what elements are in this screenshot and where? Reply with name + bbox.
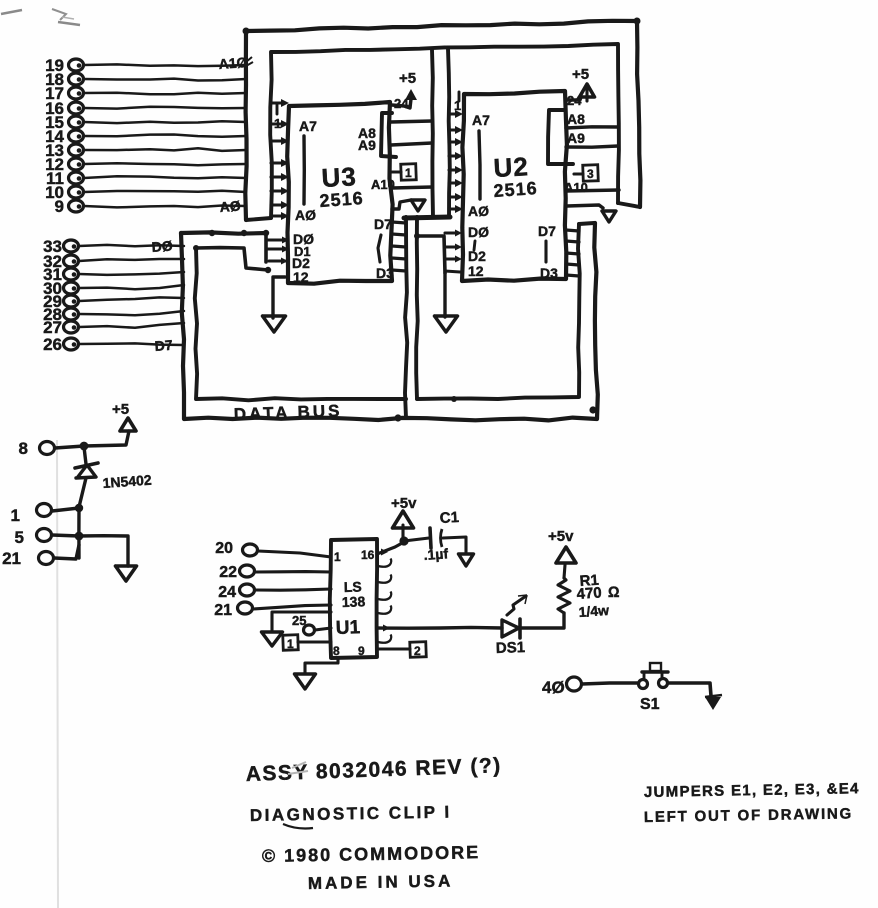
net label D7 xyxy=(154,337,173,354)
svg-text:A9: A9 xyxy=(358,137,376,153)
svg-text:DØ: DØ xyxy=(151,238,173,255)
svg-text:D7: D7 xyxy=(154,337,173,354)
U3 designator xyxy=(321,161,358,193)
U2 pin label D3 xyxy=(540,265,558,281)
svg-text:LEFT OUT OF DRAWING: LEFT OUT OF DRAWING xyxy=(644,805,853,826)
data bus U2 feeder xyxy=(414,233,445,273)
data bus right cap xyxy=(579,223,594,224)
+5V power arrow (R1) xyxy=(548,528,576,578)
wire U3 D0 xyxy=(266,237,289,244)
svg-text:5: 5 xyxy=(15,528,24,547)
wire U3 data stub D6 xyxy=(392,234,406,235)
note jumpers line 1 xyxy=(644,780,860,801)
note jumpers line 2 xyxy=(644,805,853,826)
svg-text:1: 1 xyxy=(405,166,412,180)
U2 pin label A9 xyxy=(567,130,585,146)
DATA BUS net label xyxy=(233,401,342,424)
wire U3 address stub xyxy=(271,159,289,167)
address bus left end cap xyxy=(246,218,271,220)
wire U2 address stub xyxy=(449,138,463,146)
svg-text:1/4w: 1/4w xyxy=(578,602,610,620)
U2 A7-A0 range line xyxy=(479,131,480,199)
ground (S1) xyxy=(705,695,722,710)
svg-text:DS1: DS1 xyxy=(496,639,526,657)
svg-text:21: 21 xyxy=(214,602,232,619)
connector pin 13 (address) xyxy=(45,141,246,160)
connector pin 29 (data) xyxy=(43,292,184,311)
svg-text:DATA BUS: DATA BUS xyxy=(233,401,342,424)
U3 pin label D0 xyxy=(293,231,314,247)
wire U2 pin 12 xyxy=(445,271,460,272)
wire U3 data stub D7 xyxy=(392,222,406,223)
svg-text:AØ: AØ xyxy=(295,207,316,223)
wire U3 A10 xyxy=(392,187,432,188)
U1 right stub xyxy=(378,575,391,583)
svg-text:3: 3 xyxy=(587,167,594,181)
connector pin 12 (address) xyxy=(45,155,246,174)
svg-text:+5: +5 xyxy=(572,66,589,83)
data bus middle drop xyxy=(405,217,418,418)
U2 pin label D7 xyxy=(538,223,556,239)
data bus U3 feeder xyxy=(264,233,268,262)
title copyright xyxy=(262,842,481,866)
svg-text:A7: A7 xyxy=(299,118,317,134)
U2 chip-select arrow xyxy=(567,205,616,222)
svg-text:AØ: AØ xyxy=(219,198,241,215)
svg-text:A7: A7 xyxy=(472,112,490,128)
svg-text:.1µf: .1µf xyxy=(423,545,449,563)
svg-text:Ω: Ω xyxy=(608,584,620,601)
U2 designator xyxy=(493,151,530,183)
connector pin 9 (address) xyxy=(55,197,246,216)
wire U1 pin16 to +5 xyxy=(377,536,409,555)
pin 1 label U3 xyxy=(274,104,281,131)
svg-text:+5v: +5v xyxy=(548,528,574,545)
svg-text:D3: D3 xyxy=(540,265,558,281)
connector pin 31 (data) xyxy=(43,265,184,284)
wire U3 D2 xyxy=(269,258,288,265)
svg-text:+5: +5 xyxy=(112,401,129,418)
decoder U1 body xyxy=(330,539,377,658)
U2 pin 12 ground xyxy=(435,273,458,332)
wire U2 D0 xyxy=(445,230,462,237)
svg-text:2516: 2516 xyxy=(319,188,364,211)
wire DS1 to R1 xyxy=(521,613,564,628)
U3 pin label 12 xyxy=(293,269,309,285)
svg-text:8: 8 xyxy=(333,644,340,658)
U1 designator xyxy=(335,617,360,639)
EPROM U3 body xyxy=(287,102,392,284)
connector pin 19 (address) xyxy=(45,56,246,75)
U3 pin label 24 xyxy=(394,96,409,111)
U2 D0-D2 tick xyxy=(474,241,475,250)
capacitor C1 xyxy=(404,509,459,563)
svg-text:A8: A8 xyxy=(567,111,585,127)
title DIAGNOSTIC CLIP I xyxy=(250,802,452,828)
wire U2 D2 xyxy=(445,256,462,263)
wire U2 address stub xyxy=(449,110,463,118)
svg-text:AØ: AØ xyxy=(468,203,489,219)
U1 value LS xyxy=(344,578,362,595)
connector pin 15 (address) xyxy=(45,113,246,132)
svg-text:1N5402: 1N5402 xyxy=(102,472,152,491)
U3 pin label D1 xyxy=(294,244,311,259)
svg-text:ASSY 8032046 REV (?): ASSY 8032046 REV (?) xyxy=(245,754,502,786)
U3 pin label A10 xyxy=(371,177,395,192)
connector pin 33 (data) xyxy=(43,237,184,256)
address bus outer wall xyxy=(243,18,641,221)
U2 +5 power arrow xyxy=(566,66,595,101)
wire U3 address stub xyxy=(271,187,289,195)
svg-text:470: 470 xyxy=(576,584,602,603)
wire rail pin1-5-21 xyxy=(77,508,80,558)
connector pin 17 (address) xyxy=(45,84,246,103)
address bus inner wall xyxy=(270,44,619,218)
data bus outer wall xyxy=(181,223,598,420)
connector pin 40 xyxy=(542,677,637,697)
wire U2 address stub xyxy=(449,126,463,134)
U3 chip-select arrow xyxy=(392,200,425,211)
svg-text:8: 8 xyxy=(19,439,28,458)
+5V power arrow (pin 8 rail) xyxy=(112,401,136,431)
wire U2 address stub xyxy=(449,205,463,213)
svg-text:A10: A10 xyxy=(371,177,395,192)
svg-text:U1: U1 xyxy=(335,617,360,639)
U3 pin 12 ground xyxy=(263,277,286,332)
connector pin 1 xyxy=(11,504,84,526)
svg-text:1: 1 xyxy=(11,506,20,525)
connector pin 25 xyxy=(292,613,331,635)
svg-text:© 1980 COMMODORE: © 1980 COMMODORE xyxy=(262,842,481,866)
U3 A8/A9 bracket xyxy=(381,113,396,157)
svg-text:+5: +5 xyxy=(399,70,416,87)
ground (pin 5 rail) xyxy=(79,536,137,581)
connector pin 10 (address) xyxy=(45,183,246,202)
connector pin 27 (data) xyxy=(43,318,184,337)
U3 D7-D3 range line xyxy=(378,235,381,262)
svg-text:21: 21 xyxy=(2,549,21,568)
wire U3 address stub xyxy=(271,120,289,128)
wire U3 address stub xyxy=(271,173,289,181)
svg-text:D3: D3 xyxy=(376,265,394,281)
connector pin 18 (address) xyxy=(45,70,246,89)
wire U3 address stub xyxy=(271,201,289,209)
wire U2 data stub D3 xyxy=(566,275,579,276)
svg-text:D2: D2 xyxy=(468,248,486,264)
wire U3 address stub xyxy=(271,137,289,145)
svg-text:2: 2 xyxy=(414,644,421,658)
connector pin 32 (data) xyxy=(43,252,184,271)
U1 pin 8 label xyxy=(333,644,340,658)
wire U2 address stub xyxy=(449,166,463,174)
svg-text:+5v: +5v xyxy=(391,495,417,512)
wire U2 data stub D7 xyxy=(566,230,579,231)
U2 pin label 24 xyxy=(567,93,582,108)
U1 value 138 xyxy=(342,593,366,610)
wire U3 data stub D3 xyxy=(392,270,406,271)
ground (U1 bottom) xyxy=(295,658,339,689)
connector pin 26 (data) xyxy=(43,335,184,354)
svg-text:S1: S1 xyxy=(640,696,660,713)
wire U3 address stub xyxy=(271,212,289,220)
svg-text:2516: 2516 xyxy=(493,178,538,201)
U1 right stub xyxy=(378,592,391,600)
U3 value 2516 xyxy=(319,188,364,211)
wire U3 address stub (pin 1) xyxy=(271,99,289,107)
wire U2 address stub xyxy=(449,179,463,187)
jumper E1 box (U1) xyxy=(283,635,331,651)
title MADE IN USA xyxy=(308,871,454,893)
data bus top bar xyxy=(181,230,269,236)
svg-text:1: 1 xyxy=(334,550,341,564)
connector pin 16 (address) xyxy=(45,99,246,118)
svg-text:D7: D7 xyxy=(374,216,392,232)
ground (C1) xyxy=(443,537,474,566)
U3 pin label D3 xyxy=(376,265,394,281)
wire U3 A8 xyxy=(391,121,432,122)
jumper E3 box (U2) xyxy=(574,165,598,182)
U2 pin label D0 xyxy=(468,224,489,240)
title ASSY xyxy=(245,754,502,786)
U2 pin label D2 xyxy=(468,248,486,264)
U2 value 2516 xyxy=(493,178,538,201)
svg-text:138: 138 xyxy=(342,593,366,610)
svg-text:22: 22 xyxy=(219,564,237,581)
pin 1 label U2 xyxy=(454,92,461,113)
wire U2 data stub D5 xyxy=(566,253,579,254)
U2 pin label A0 xyxy=(468,203,489,219)
wire U3 A9 xyxy=(391,143,432,145)
svg-text:24: 24 xyxy=(218,584,236,601)
U3 pin label D2 xyxy=(292,255,310,271)
U3 pin label D7 xyxy=(374,216,392,232)
U2 pin label A7 xyxy=(472,112,490,128)
U2 pin label A8 xyxy=(567,111,585,127)
net label D0 xyxy=(151,238,173,255)
switch S1 xyxy=(639,663,669,713)
svg-text:A9: A9 xyxy=(567,130,585,146)
connector pin 30 (data) xyxy=(43,279,184,298)
U2 pin label 12 xyxy=(468,263,484,279)
wire S1 to ground xyxy=(668,683,711,696)
U3 pin label A7 xyxy=(299,118,317,134)
U1 pin 9 label xyxy=(358,644,365,658)
U1 pin 16 label xyxy=(361,548,375,562)
wire U2 D1 xyxy=(445,244,462,251)
svg-text:A1Ø: A1Ø xyxy=(218,54,248,72)
connector pin 14 (address) xyxy=(45,127,246,146)
svg-text:9: 9 xyxy=(358,644,365,658)
U2 D7-D3 range line xyxy=(544,241,547,262)
stray pencil marks xyxy=(1,9,80,908)
svg-text:20: 20 xyxy=(215,540,233,557)
connector pin 21 xyxy=(2,545,79,568)
U2 pin label A10 xyxy=(564,180,588,195)
U1 right stub xyxy=(378,559,391,567)
EPROM U2 body xyxy=(462,91,567,281)
address bus right end cap xyxy=(618,203,640,207)
wire U2 data stub D4 xyxy=(566,264,579,265)
wire U3 data stub D4 xyxy=(392,258,406,259)
connector pin 20 xyxy=(215,540,331,557)
resistor R1 xyxy=(558,572,620,620)
svg-text:1: 1 xyxy=(274,116,281,131)
LED DS1 xyxy=(496,595,527,657)
address bus middle drop (to U2) xyxy=(404,49,450,218)
svg-text:1: 1 xyxy=(287,637,294,651)
data bus inner wall (right loop) xyxy=(417,224,580,399)
wire U2 address stub xyxy=(449,152,463,160)
svg-text:D7: D7 xyxy=(538,223,556,239)
svg-text:4Ø: 4Ø xyxy=(542,678,565,697)
data bus junction dots xyxy=(394,396,596,422)
svg-text:DØ: DØ xyxy=(468,224,489,240)
svg-text:26: 26 xyxy=(43,335,62,354)
U3 pin label A0 xyxy=(295,207,316,223)
wire U2 data stub D6 xyxy=(566,241,579,242)
net label A10 xyxy=(218,54,253,72)
U1 right stub xyxy=(378,606,391,614)
svg-text:16: 16 xyxy=(361,548,375,562)
data bus inner wall (left loop) xyxy=(193,245,406,400)
svg-text:12: 12 xyxy=(468,263,484,279)
wire U2 A10 xyxy=(566,190,619,191)
wire U3 D1 xyxy=(267,246,289,253)
U3 +5 power arrow xyxy=(392,70,417,108)
svg-text:DIAGNOSTIC CLIP I: DIAGNOSTIC CLIP I xyxy=(250,802,452,825)
U1 right stub xyxy=(378,635,391,643)
connector pin 28 (data) xyxy=(43,305,184,324)
connector pin 8 xyxy=(19,431,129,458)
data bus inner step (left) xyxy=(196,248,271,274)
svg-text:C1: C1 xyxy=(439,509,459,527)
wire U3 data stub D5 xyxy=(392,246,406,247)
wire U1 to DS1 xyxy=(377,625,502,632)
connector pin 5 xyxy=(15,528,84,547)
wire U2 A8 xyxy=(566,127,618,128)
svg-text:9: 9 xyxy=(55,197,64,216)
connector pin 21 (U1) xyxy=(214,602,331,619)
ground (U1 left) xyxy=(262,612,332,646)
U3 A7-A0 range line xyxy=(302,136,306,204)
jumper E2 box (U1) xyxy=(377,642,426,658)
wire U2 A9 xyxy=(566,146,618,147)
connector pin 24 xyxy=(218,584,331,601)
connector pin 22 xyxy=(219,564,331,581)
net label A0 xyxy=(219,198,241,215)
svg-text:JUMPERS E1, E2, E3, &E4: JUMPERS E1, E2, E3, &E4 xyxy=(644,780,860,801)
svg-text:MADE IN USA: MADE IN USA xyxy=(308,871,454,893)
svg-text:12: 12 xyxy=(293,269,309,285)
U3 pin label A8 xyxy=(358,125,376,141)
+5V power arrow (U1) xyxy=(391,495,417,540)
wire U2 address stub xyxy=(449,193,463,201)
connector pin 11 (address) xyxy=(46,169,246,188)
U3 pin label A9 xyxy=(358,137,376,153)
U1 pin 1 label xyxy=(334,550,341,564)
jumper E1 box (U3) xyxy=(392,164,416,181)
U2 A8/A9 bracket xyxy=(548,110,573,164)
diode CR1 1N5402 xyxy=(75,447,152,507)
